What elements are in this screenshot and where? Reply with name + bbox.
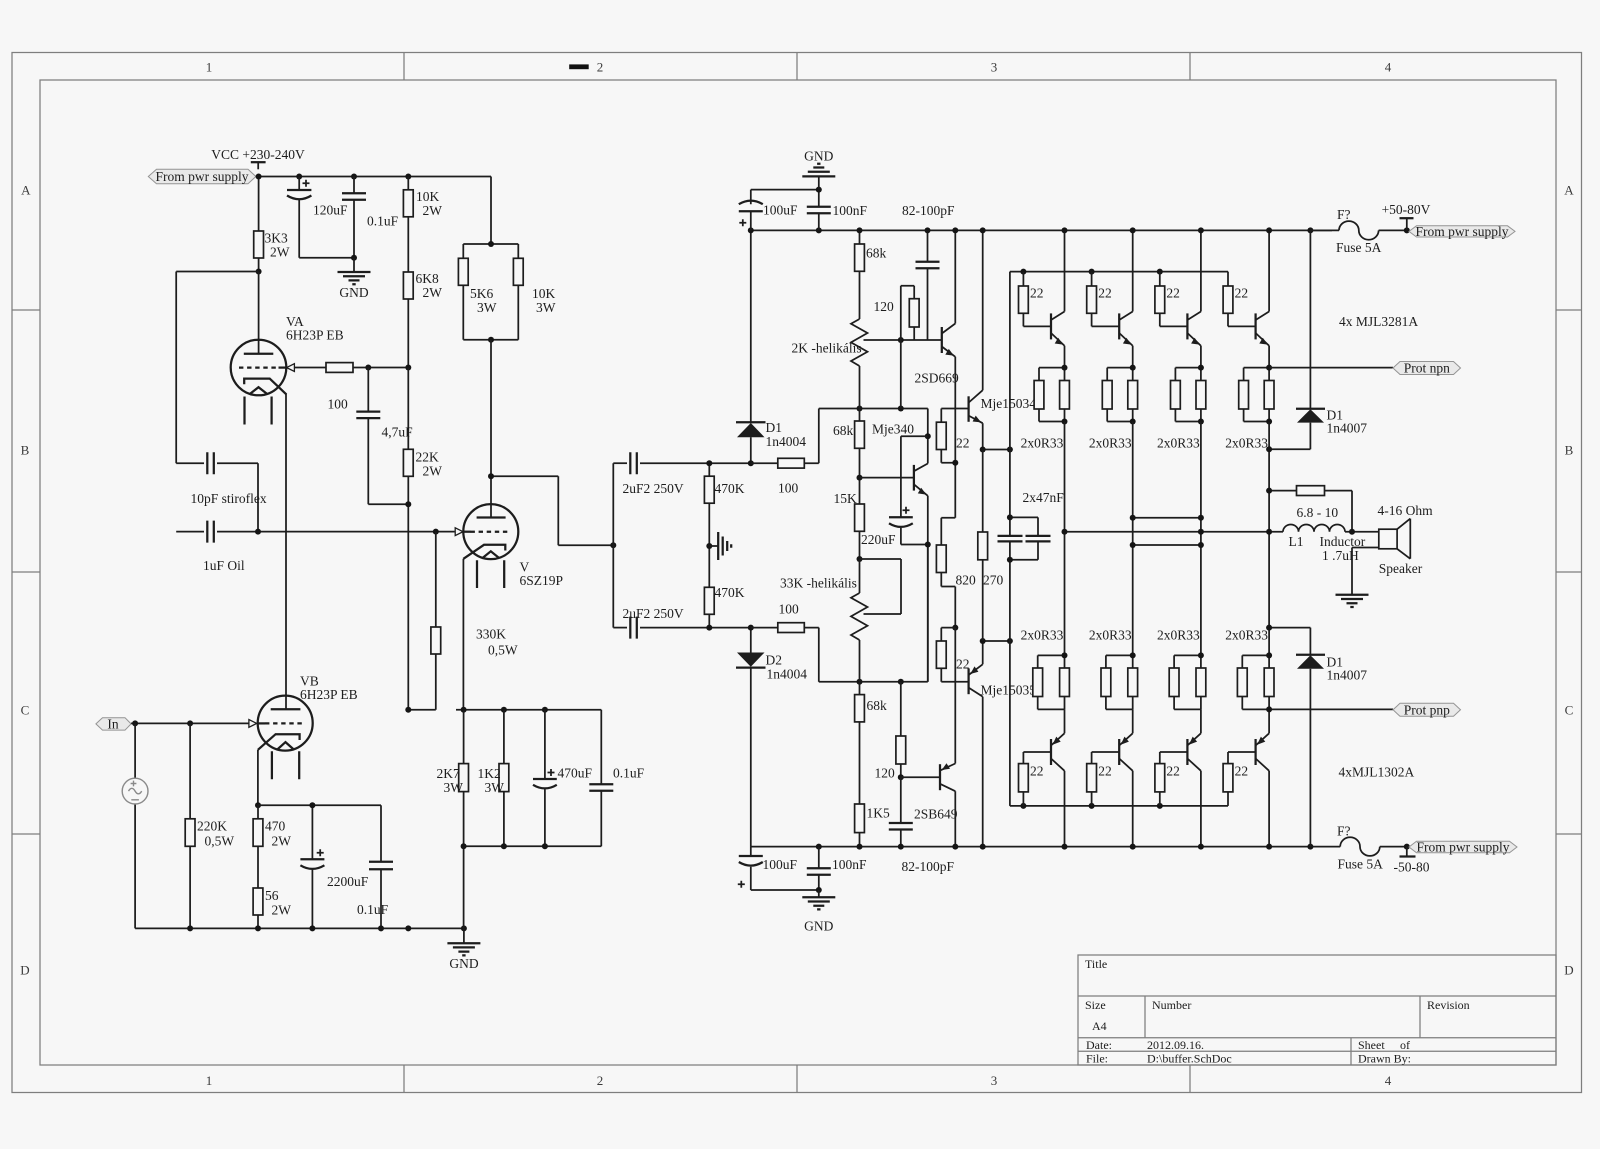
svg-text:A: A — [1564, 183, 1574, 198]
junction dot coupling left — [610, 542, 616, 548]
resistor 22 (npn base 1) — [1019, 272, 1052, 327]
fold mark tick — [569, 64, 589, 69]
junction dots signal wire — [255, 529, 261, 535]
svg-text:6K8: 6K8 — [416, 271, 439, 286]
svg-text:GND: GND — [339, 285, 368, 300]
svg-text:100: 100 — [328, 397, 349, 412]
inductor L1 1.7uH — [1283, 525, 1379, 563]
svg-text:F?: F? — [1337, 824, 1351, 839]
wire Mje340 collector — [927, 436, 929, 463]
wire Mje15034 collector to rail — [982, 230, 984, 390]
svg-text:22: 22 — [1098, 286, 1112, 301]
resistor 22 (npn base 4) — [1223, 272, 1256, 327]
svg-text:6.8 - 10: 6.8 - 10 — [1297, 505, 1339, 520]
wire emitter #4 — [1268, 346, 1270, 368]
wire output column 2 — [1132, 422, 1134, 656]
wire emitter #3 — [1200, 346, 1202, 368]
wire pnp emitter #2 — [1132, 709, 1134, 733]
ground GND (top, inverted) — [802, 149, 835, 190]
svg-text:2SB649: 2SB649 — [914, 807, 958, 822]
resistor 22 (pnp base 3) — [1155, 752, 1188, 806]
svg-text:D1: D1 — [766, 420, 783, 435]
tube VB 6H23P EB — [249, 674, 358, 780]
wire pnp collector #1 — [1064, 771, 1066, 847]
svg-text:470: 470 — [265, 819, 286, 834]
svg-text:820: 820 — [956, 573, 977, 588]
wire output link upper rung — [1133, 517, 1201, 519]
svg-text:of: of — [1400, 1038, 1410, 1052]
svg-text:120: 120 — [874, 299, 895, 314]
power port +50-80V — [1382, 202, 1431, 230]
resistor 2x0R33 (npn 3) — [1157, 368, 1206, 451]
svg-text:2W: 2W — [272, 903, 292, 918]
wire bias mid to 2SB649 emitter — [954, 628, 956, 764]
svg-text:120uF: 120uF — [313, 203, 348, 218]
svg-text:5K6: 5K6 — [470, 286, 493, 301]
resistor 22 (npn base 2) — [1087, 272, 1120, 327]
junction dot speaker node — [1349, 529, 1355, 535]
svg-text:1: 1 — [206, 1073, 213, 1088]
svg-text:0,5W: 0,5W — [205, 834, 235, 849]
junction dots GND rail — [187, 925, 193, 931]
junction dot pnp emitter node 1 — [1062, 652, 1068, 658]
wire emitter #2 — [1132, 346, 1134, 368]
transistor Q MJL1302A #1 — [1051, 733, 1065, 771]
junction dots top rail — [748, 227, 754, 233]
wire main GND rail (bottom left) — [135, 927, 464, 929]
transistor Q MJL1302A #2 — [1119, 733, 1133, 771]
junction dot 22 bottom node — [952, 460, 958, 466]
svg-text:1 .7uH: 1 .7uH — [1322, 548, 1359, 563]
wire 3K3 node to left branch — [176, 272, 258, 464]
wire bias row link (lower) — [818, 628, 820, 682]
svg-text:2K7: 2K7 — [437, 766, 460, 781]
resistor 2x0R33 (pnp 2) — [1089, 628, 1138, 710]
resistor 10K 3W (right of pair) — [463, 258, 555, 339]
transistor Q MJL1302A #4 — [1256, 733, 1270, 771]
wire bias rail lower (y=681.8) — [819, 545, 928, 682]
wire Mje15035 emitter — [982, 641, 984, 664]
svg-text:470uF: 470uF — [558, 766, 593, 781]
svg-text:2W: 2W — [270, 245, 290, 260]
svg-text:In: In — [107, 717, 118, 732]
svg-text:220K: 220K — [197, 819, 227, 834]
wire wiper to bias rail — [900, 340, 902, 409]
svg-text:2x0R33: 2x0R33 — [1089, 628, 1132, 643]
potentiometer 33K -helikális — [780, 559, 901, 682]
junction dot 2SB649 base node — [898, 774, 904, 780]
svg-text:2W: 2W — [423, 285, 443, 300]
resistor 22 (pre-driver pnp) — [936, 628, 969, 682]
junction dots 100 output node — [365, 365, 371, 371]
wire pnp base bus — [1010, 641, 1228, 806]
svg-text:68k: 68k — [833, 423, 854, 438]
junction dots bias rail upper — [857, 406, 863, 412]
svg-text:File:: File: — [1086, 1052, 1108, 1066]
ground (speaker) — [1336, 595, 1369, 607]
wire pnp emitter #3 — [1200, 709, 1202, 733]
junction dots In wire — [132, 720, 138, 726]
junction dots VCC rail — [256, 174, 262, 180]
junction dot pnp emitter node 3 — [1198, 652, 1204, 658]
resistor 2x0R33 (npn 4) — [1225, 368, 1274, 451]
wire Prot npn tap — [1269, 367, 1393, 369]
svg-text:1K2: 1K2 — [478, 766, 501, 781]
resistor 22 (pnp base 2) — [1087, 752, 1120, 806]
junction dots cathode rail — [405, 707, 411, 713]
svg-text:100: 100 — [778, 481, 799, 496]
wire cathode network bottom rail — [464, 846, 602, 928]
resistor 22 (pre-driver npn) — [936, 409, 969, 463]
svg-text:4x MJL3281A: 4x MJL3281A — [1339, 314, 1418, 329]
junction dot Mje340 base node — [857, 475, 863, 481]
wire pnp emitter #4 — [1268, 709, 1270, 733]
resistor 470K (lower) — [704, 546, 744, 628]
resistor 100 (lower bias row) — [751, 602, 819, 633]
wire rail -50-80 (bottom) — [751, 846, 1340, 848]
svg-text:68k: 68k — [867, 698, 888, 713]
capacitor 1uF Oil — [176, 521, 454, 573]
junction dots emitter node 1 — [1062, 365, 1068, 371]
svg-text:Mje15035: Mje15035 — [981, 683, 1037, 698]
svg-text:3K3: 3K3 — [265, 231, 288, 246]
capacitor 100uF (top, polarized) — [739, 201, 798, 231]
svg-text:270: 270 — [983, 573, 1004, 588]
resistor 330K 0,5W — [408, 532, 518, 710]
svg-text:2: 2 — [597, 1073, 604, 1088]
wire pnp collector #3 — [1200, 771, 1202, 847]
resistor 270 — [978, 450, 1004, 642]
wire emitter #1 — [1064, 346, 1066, 368]
wire lower driver node (y=641) — [983, 640, 1010, 642]
resistor 470 2W — [253, 805, 291, 888]
port From pwr supply (top right) — [1409, 224, 1515, 239]
svg-text:0,5W: 0,5W — [488, 643, 518, 658]
wire collector #4 — [1268, 230, 1270, 311]
wire In to VB grid — [131, 722, 249, 724]
svg-text:82-100pF: 82-100pF — [902, 203, 955, 218]
svg-text:Speaker: Speaker — [1379, 561, 1423, 576]
svg-text:4: 4 — [1385, 1073, 1392, 1088]
svg-text:From pwr supply: From pwr supply — [1416, 839, 1509, 854]
resistor 68k (lower) — [855, 682, 887, 804]
svg-text:22: 22 — [1235, 286, 1249, 301]
ground GND (under 0.1uF) — [338, 258, 371, 300]
resistor 6K8 2W — [403, 271, 442, 368]
svg-text:15K: 15K — [834, 491, 858, 506]
svg-text:1K5: 1K5 — [867, 806, 890, 821]
svg-text:2x47nF: 2x47nF — [1023, 490, 1065, 505]
junction dots 2x47nF — [1007, 514, 1013, 520]
svg-text:22: 22 — [1166, 764, 1180, 779]
resistor 100 (VA grid) — [326, 363, 408, 412]
svg-text:1: 1 — [206, 60, 213, 75]
svg-text:Size: Size — [1085, 998, 1106, 1012]
resistor 220K 0,5W — [185, 723, 234, 928]
capacitor 2uF2 250V (lower) — [613, 606, 751, 639]
svg-text:1n4004: 1n4004 — [767, 667, 808, 682]
svg-text:2x0R33: 2x0R33 — [1225, 628, 1268, 643]
junction dot Prot pnp node — [1266, 706, 1272, 712]
zone divider ticks left — [12, 310, 40, 834]
svg-text:Fuse 5A: Fuse 5A — [1336, 240, 1382, 255]
svg-text:4xMJL1302A: 4xMJL1302A — [1339, 765, 1415, 780]
svg-text:2uF2 250V: 2uF2 250V — [623, 606, 684, 621]
capacitor 220uF (polarized) — [861, 436, 928, 547]
svg-text:2W: 2W — [423, 464, 443, 479]
junction dot VB cathode node — [255, 802, 261, 808]
wire npn base bus — [1010, 272, 1228, 450]
resistor 2x0R33 (pnp 3) — [1157, 628, 1206, 710]
svg-text:68k: 68k — [866, 246, 887, 261]
svg-text:22: 22 — [1030, 286, 1044, 301]
svg-text:2W: 2W — [423, 203, 443, 218]
capacitor 2uF2 250V (upper) — [613, 452, 751, 496]
transistor Q MJL3281A #1 — [1051, 312, 1065, 346]
svg-text:Mje340: Mje340 — [872, 422, 914, 437]
resistor 22 (pnp base 1) — [1019, 752, 1052, 806]
svg-text:Fuse 5A: Fuse 5A — [1338, 857, 1384, 872]
svg-text:D: D — [1564, 963, 1573, 978]
wire 2SB649 collector to rail — [954, 791, 956, 846]
junction dots lower driver node — [980, 638, 986, 644]
svg-text:4: 4 — [1385, 60, 1392, 75]
svg-text:22: 22 — [1098, 764, 1112, 779]
resistor 1K2 3W — [478, 710, 509, 847]
zone divider ticks top — [404, 52, 1190, 80]
port In — [96, 717, 131, 732]
junction dot V plate tap — [488, 473, 494, 479]
tube VA 6H23P EB — [231, 314, 344, 425]
svg-text:2W: 2W — [272, 834, 292, 849]
junction dots 5K6/10K pair — [488, 241, 494, 247]
transistor Q MJL3281A #3 — [1187, 312, 1201, 346]
junction dot Mje340 collector node — [925, 433, 931, 439]
svg-text:2x0R33: 2x0R33 — [1089, 436, 1132, 451]
svg-text:B: B — [1565, 443, 1574, 458]
fuse F? 5A (bottom) — [1337, 824, 1409, 872]
svg-text:Number: Number — [1152, 998, 1191, 1012]
ground GND (bottom) — [802, 890, 835, 934]
svg-text:3: 3 — [991, 1073, 998, 1088]
resistor 2x0R33 (pnp 4) — [1225, 628, 1274, 710]
svg-text:220uF: 220uF — [861, 532, 896, 547]
capacitor 2x47nF — [998, 450, 1065, 642]
svg-text:GND: GND — [804, 919, 833, 934]
wire output node line — [1065, 531, 1284, 533]
svg-text:Mje15034: Mje15034 — [981, 396, 1037, 411]
resistor 2x0R33 (pnp 1) — [1021, 628, 1070, 710]
port From pwr supply (top left) — [148, 169, 256, 184]
svg-text:330K: 330K — [476, 627, 506, 642]
svg-text:2uF2 250V: 2uF2 250V — [623, 481, 684, 496]
title block frame — [1078, 955, 1556, 1065]
junction dots output mesh — [1062, 529, 1068, 535]
wire pnp emitter #1 — [1064, 709, 1066, 733]
svg-text:GND: GND — [804, 149, 833, 164]
svg-text:6H23P EB: 6H23P EB — [286, 328, 344, 343]
svg-text:From pwr supply: From pwr supply — [155, 169, 248, 184]
port From pwr supply (bottom right) — [1409, 839, 1517, 854]
transistor Q MJL3281A #4 — [1256, 312, 1270, 346]
junction dots top rail outputs — [1062, 227, 1068, 233]
junction dots npn base bus — [1020, 269, 1026, 275]
port Prot pnp — [1393, 702, 1461, 717]
wire Mje15034 emitter — [982, 423, 984, 449]
svg-text:2SD669: 2SD669 — [915, 371, 960, 386]
svg-text:3W: 3W — [444, 780, 464, 795]
wire output column 1 — [1064, 422, 1066, 656]
junction dot 33K pot top — [857, 556, 863, 562]
capacitor 100nF (bottom) — [807, 847, 867, 890]
svg-text:1n4007: 1n4007 — [1327, 668, 1368, 683]
capacitor 470uF (polarized) — [533, 710, 593, 847]
junction dot bias mid node — [952, 625, 958, 631]
wire collector #3 — [1200, 230, 1202, 311]
junction dots emitter node 3 — [1198, 365, 1204, 371]
svg-text:Revision: Revision — [1427, 998, 1470, 1012]
power port VCC +230-240V — [211, 147, 305, 169]
resistor 1K5 — [855, 804, 890, 847]
svg-text:2K -helikális: 2K -helikális — [792, 341, 862, 356]
svg-text:4-16 Ohm: 4-16 Ohm — [1378, 503, 1434, 518]
svg-text:Prot pnp: Prot pnp — [1404, 702, 1450, 717]
svg-text:C: C — [21, 703, 30, 718]
resistor 22 (pnp base 4) — [1223, 752, 1256, 806]
resistor 3K3 2W — [254, 231, 290, 272]
junction dot 120uF/0.1uF bottom — [351, 255, 357, 261]
junction dot 4.7uF/22K node — [405, 501, 411, 507]
svg-text:Drawn By:: Drawn By: — [1358, 1052, 1411, 1066]
resistor 5K6 3W (left of pair) — [458, 244, 518, 340]
svg-text:6H23P EB: 6H23P EB — [300, 687, 358, 702]
resistor 22 (npn base 3) — [1155, 272, 1188, 327]
resistor 820 — [936, 518, 976, 628]
svg-text:F?: F? — [1337, 207, 1351, 222]
svg-text:3W: 3W — [536, 300, 556, 315]
svg-text:Title: Title — [1085, 957, 1107, 971]
capacitor 4,7uF — [356, 368, 413, 505]
wire VCC drop to 3K3 — [258, 177, 260, 232]
junction dots cathode network bottom — [461, 843, 467, 849]
svg-text:470K: 470K — [715, 481, 745, 496]
junction dots 470K nodes — [706, 460, 712, 466]
svg-text:3W: 3W — [485, 780, 505, 795]
resistor 68k (top) — [855, 230, 887, 319]
svg-text:82-100pF: 82-100pF — [902, 859, 955, 874]
resistor 6.8 - 10 (damping) — [1269, 486, 1352, 532]
wire Prot pnp tap — [1269, 708, 1393, 710]
transistor Q Mje15034 — [969, 390, 1037, 423]
resistor 2x0R33 (npn 1) — [1021, 368, 1070, 451]
diode D1 1n4007 (upper) — [1269, 230, 1367, 449]
tube V 6SZ19P — [455, 504, 563, 588]
wire cathode node to caps — [258, 804, 381, 806]
svg-text:3: 3 — [991, 60, 998, 75]
svg-text:2200uF: 2200uF — [327, 874, 369, 889]
junction dot 220uF bottom — [925, 542, 931, 548]
svg-text:2x0R33: 2x0R33 — [1225, 436, 1268, 451]
svg-text:100uF: 100uF — [763, 857, 798, 872]
capacitor 10pF stiroflex — [176, 452, 267, 531]
resistor 120 (upper) — [874, 286, 920, 340]
svg-text:100nF: 100nF — [832, 857, 867, 872]
svg-text:6SZ19P: 6SZ19P — [520, 573, 564, 588]
wire V cathode down — [462, 559, 464, 710]
svg-text:100uF: 100uF — [763, 203, 798, 218]
svg-text:2x0R33: 2x0R33 — [1157, 436, 1200, 451]
svg-text:Prot npn: Prot npn — [1404, 361, 1450, 376]
resistor 15K — [834, 491, 865, 559]
wire GND link (top) — [751, 190, 819, 205]
junction dot pnp emitter node 2 — [1130, 652, 1136, 658]
capacitor 82-100pF (lower) — [889, 777, 955, 874]
svg-text:1n4004: 1n4004 — [766, 434, 807, 449]
resistor 68k (mid) — [833, 409, 864, 505]
transistor Q 2SD669 — [915, 324, 960, 386]
transistor Q MJL3281A #2 — [1119, 312, 1133, 346]
port Prot npn — [1393, 361, 1461, 376]
svg-text:22: 22 — [1166, 286, 1180, 301]
junction dot supply node bottom — [1404, 844, 1410, 850]
svg-text:2x0R33: 2x0R33 — [1021, 628, 1064, 643]
svg-text:D: D — [20, 963, 29, 978]
junction dot D1 upper anode — [1266, 446, 1272, 452]
svg-text:33K -helikális: 33K -helikális — [780, 576, 857, 591]
junction dot D1 anode node — [748, 460, 754, 466]
wire Mje340 base — [860, 477, 914, 479]
resistor 120 (lower) — [875, 682, 906, 781]
resistor 56 2W — [253, 888, 291, 928]
svg-text:0.1uF: 0.1uF — [613, 766, 645, 781]
junction dot 2200uF top — [309, 802, 315, 808]
resistor 10K 2W — [403, 177, 442, 273]
svg-text:100: 100 — [779, 602, 800, 617]
svg-text:10pF stiroflex: 10pF stiroflex — [191, 491, 267, 506]
wire V plate tap to coupling caps — [491, 476, 613, 545]
junction dot 3K3 bottom node — [256, 269, 262, 275]
wire VCC rail (y=176) — [256, 177, 491, 245]
junction dot damping tap — [1266, 488, 1272, 494]
wire 2SD669 collector to rail — [954, 230, 956, 323]
ground (mid, rotated) — [709, 532, 731, 560]
junction dot supply node top — [1404, 227, 1410, 233]
svg-text:Date:: Date: — [1086, 1038, 1112, 1052]
svg-text:2x0R33: 2x0R33 — [1021, 436, 1064, 451]
svg-text:2012.09.16.: 2012.09.16. — [1147, 1038, 1204, 1052]
resistor 2x0R33 (npn 2) — [1089, 368, 1138, 451]
wire output column 4 — [1268, 422, 1270, 656]
diode D1 1n4004 — [736, 230, 806, 463]
svg-text:B: B — [21, 443, 30, 458]
wire output column 3 — [1200, 422, 1202, 656]
capacitor 0.1uF (V cathode) — [589, 710, 644, 847]
wire Mje340 emitter chain — [927, 496, 929, 682]
transistor Q Mje15035 — [969, 664, 1037, 697]
svg-text:10K: 10K — [416, 189, 440, 204]
svg-text:Sheet: Sheet — [1358, 1038, 1385, 1052]
resistor 22K 2W — [403, 368, 442, 710]
svg-text:56: 56 — [265, 888, 279, 903]
junction dots bottom rail — [816, 844, 822, 850]
wire 2SB649 base — [901, 776, 940, 778]
wire pair bottom to V plate — [490, 340, 492, 518]
svg-text:2: 2 — [597, 60, 604, 75]
junction dot GND link — [816, 187, 822, 193]
wire 2SD669 emitter chain — [954, 357, 956, 518]
svg-text:D:\buffer.SchDoc: D:\buffer.SchDoc — [1147, 1052, 1232, 1066]
svg-text:-50-80: -50-80 — [1394, 860, 1430, 875]
